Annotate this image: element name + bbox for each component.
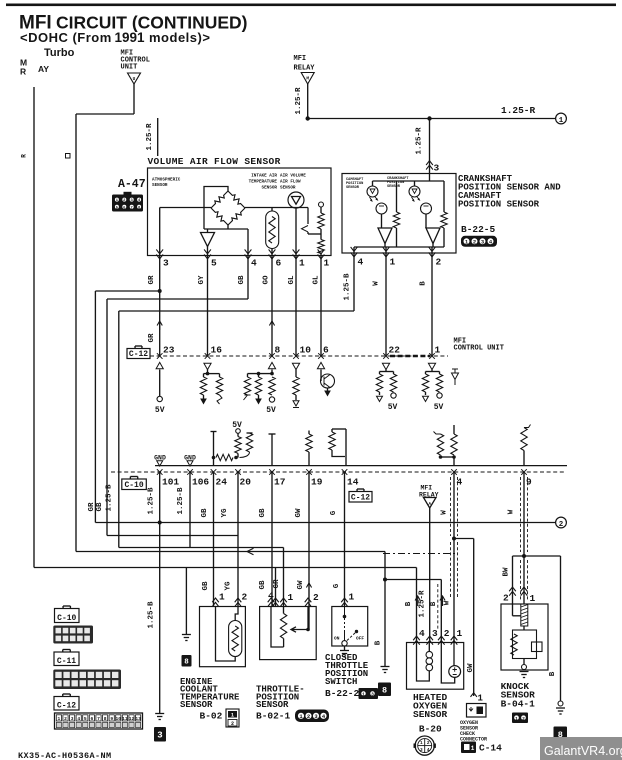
svg-text:GalantVR4.org: GalantVR4.org	[544, 744, 622, 758]
svg-text:1.25-R: 1.25-R	[295, 87, 303, 115]
svg-text:3: 3	[420, 748, 423, 753]
svg-text:G: G	[333, 583, 341, 588]
svg-text:1: 1	[288, 592, 294, 603]
svg-text:GW: GW	[297, 580, 305, 590]
svg-text:C-10: C-10	[57, 614, 76, 623]
svg-text:5: 5	[84, 716, 87, 722]
svg-text:1: 1	[58, 716, 61, 722]
svg-text:1: 1	[515, 716, 518, 722]
svg-text:GL: GL	[313, 275, 321, 285]
svg-text:AIR FLOW: AIR FLOW	[280, 180, 301, 185]
svg-text:2: 2	[427, 741, 430, 746]
svg-text:R: R	[20, 67, 26, 77]
svg-text:KX35-AC-H0536A-NM: KX35-AC-H0536A-NM	[18, 751, 112, 760]
svg-text:C-12: C-12	[129, 350, 148, 359]
svg-text:A-47: A-47	[118, 178, 146, 191]
svg-text:17: 17	[274, 477, 286, 488]
svg-text:GY: GY	[198, 275, 206, 285]
svg-text:5V: 5V	[266, 406, 276, 415]
svg-text:B-22-2: B-22-2	[325, 688, 360, 699]
svg-text:2: 2	[503, 593, 509, 604]
svg-text:14: 14	[347, 477, 359, 488]
svg-text:B-22-5: B-22-5	[461, 224, 496, 235]
svg-text:B-04-1: B-04-1	[501, 698, 536, 709]
svg-text:1.25-B: 1.25-B	[177, 487, 185, 515]
svg-text:TEMPERATURE: TEMPERATURE	[249, 180, 278, 185]
svg-text:10: 10	[116, 716, 122, 722]
svg-text:VOLUME AIR FLOW SENSOR: VOLUME AIR FLOW SENSOR	[148, 156, 281, 167]
svg-text:W: W	[444, 600, 452, 605]
svg-text:models)>: models)>	[149, 30, 210, 45]
svg-text:W: W	[508, 509, 516, 514]
svg-text:1.25-B: 1.25-B	[148, 487, 156, 515]
svg-text:GB: GB	[96, 502, 104, 512]
svg-text:GO: GO	[263, 275, 271, 285]
svg-text:C-10: C-10	[124, 481, 143, 490]
svg-text:UNIT: UNIT	[121, 64, 138, 72]
svg-text:5V: 5V	[155, 406, 165, 415]
svg-text:B: B	[405, 601, 413, 606]
svg-text:SENSOR: SENSOR	[256, 700, 289, 710]
svg-text:12: 12	[129, 716, 135, 722]
svg-text:GB: GB	[238, 275, 246, 285]
svg-text:3: 3	[163, 258, 169, 269]
svg-text:1: 1	[530, 593, 536, 604]
svg-text:R: R	[21, 154, 28, 158]
svg-text:INTAKE AIR: INTAKE AIR	[251, 174, 277, 179]
svg-text:GR: GR	[148, 275, 156, 285]
svg-text:C-11: C-11	[57, 657, 76, 666]
svg-text:101: 101	[162, 477, 179, 488]
svg-text:1: 1	[457, 628, 463, 639]
svg-text:1: 1	[299, 258, 305, 269]
svg-text:1: 1	[349, 592, 355, 603]
svg-text:6: 6	[276, 258, 282, 269]
svg-text:1: 1	[390, 257, 396, 268]
svg-text:YG: YG	[225, 581, 233, 591]
svg-text:4: 4	[268, 591, 274, 602]
svg-text:2: 2	[473, 239, 476, 246]
svg-text:5V: 5V	[434, 403, 444, 412]
svg-text:2: 2	[444, 628, 450, 639]
svg-text:U: U	[133, 76, 136, 82]
svg-text:AY: AY	[38, 64, 49, 74]
svg-text:B-20: B-20	[419, 724, 442, 735]
svg-text:24: 24	[216, 477, 228, 488]
svg-text:GR: GR	[88, 502, 96, 512]
svg-text:2: 2	[559, 521, 564, 529]
svg-text:6: 6	[91, 716, 94, 722]
svg-text:8: 8	[184, 658, 189, 666]
svg-text:M: M	[306, 76, 309, 82]
svg-text:<DOHC (From: <DOHC (From	[20, 30, 112, 45]
svg-text:1.25-B: 1.25-B	[344, 273, 352, 301]
svg-text:SENSOR: SENSOR	[280, 186, 296, 191]
svg-text:SENSOR: SENSOR	[262, 186, 278, 191]
svg-text:SENSOR: SENSOR	[180, 700, 213, 710]
svg-text:1: 1	[435, 345, 441, 356]
svg-text:GB: GB	[202, 581, 210, 591]
svg-text:8: 8	[275, 345, 281, 356]
svg-text:SENSOR: SENSOR	[152, 183, 168, 188]
svg-text:B: B	[420, 281, 428, 286]
svg-text:20: 20	[240, 477, 252, 488]
svg-text:B-02: B-02	[200, 711, 223, 722]
svg-text:1991: 1991	[115, 30, 146, 45]
svg-text:2: 2	[242, 592, 248, 603]
svg-text:1.25-R: 1.25-R	[418, 590, 426, 618]
svg-text:CONTROL UNIT: CONTROL UNIT	[454, 345, 504, 353]
svg-text:2: 2	[307, 713, 310, 720]
svg-text:GB: GB	[259, 508, 267, 518]
svg-text:5: 5	[211, 258, 217, 269]
svg-text:MFI: MFI	[294, 55, 307, 63]
svg-text:10: 10	[300, 345, 312, 356]
svg-text:BW: BW	[503, 567, 511, 577]
svg-text:23: 23	[163, 345, 175, 356]
svg-text:16: 16	[211, 345, 223, 356]
svg-text:13: 13	[135, 716, 141, 722]
svg-text:9: 9	[110, 716, 113, 722]
svg-text:5V: 5V	[232, 421, 242, 430]
svg-text:3: 3	[432, 628, 438, 639]
svg-text:SWITCH: SWITCH	[325, 677, 357, 687]
svg-text:3: 3	[71, 716, 74, 722]
svg-text:POSITION SENSOR: POSITION SENSOR	[458, 200, 540, 210]
svg-text:1.25-B: 1.25-B	[148, 601, 156, 629]
svg-text:OFF: OFF	[356, 636, 364, 642]
svg-text:G: G	[330, 510, 338, 515]
svg-text:1.25-B: 1.25-B	[106, 484, 114, 512]
svg-text:6: 6	[323, 345, 329, 356]
svg-text:GB: GB	[259, 580, 267, 590]
svg-text:1: 1	[471, 745, 475, 752]
svg-text:4: 4	[427, 748, 430, 753]
svg-text:8: 8	[382, 685, 387, 695]
svg-text:1: 1	[420, 741, 423, 746]
svg-text:1.25-R: 1.25-R	[416, 127, 424, 155]
svg-text:W: W	[373, 281, 381, 286]
svg-text:GB: GB	[201, 508, 209, 518]
svg-text:3: 3	[157, 730, 162, 740]
svg-text:1: 1	[559, 117, 564, 125]
svg-text:B-02-1: B-02-1	[256, 711, 291, 722]
svg-text:4: 4	[358, 257, 364, 268]
svg-text:C-12: C-12	[57, 702, 76, 711]
svg-text:B: B	[430, 601, 438, 606]
svg-text:RELAY: RELAY	[294, 65, 316, 73]
svg-text:19: 19	[311, 477, 323, 488]
svg-text:4: 4	[419, 628, 425, 639]
svg-text:GW: GW	[467, 663, 475, 673]
svg-text:5V: 5V	[388, 403, 398, 412]
svg-text:1: 1	[324, 258, 330, 269]
svg-text:2: 2	[313, 592, 319, 603]
svg-text:SENSOR: SENSOR	[387, 185, 401, 189]
svg-text:2: 2	[522, 716, 525, 722]
svg-text:9: 9	[526, 477, 532, 488]
svg-text:GL: GL	[288, 275, 296, 285]
svg-text:2: 2	[436, 257, 442, 268]
svg-text:C-12: C-12	[351, 494, 370, 503]
svg-text:AIR VOLUME: AIR VOLUME	[280, 174, 306, 179]
svg-text:1.25-R: 1.25-R	[501, 105, 536, 116]
svg-text:106: 106	[192, 477, 209, 488]
svg-text:3: 3	[434, 163, 440, 174]
svg-text:B: B	[549, 671, 557, 676]
svg-text:22: 22	[389, 345, 401, 356]
svg-text:3: 3	[371, 692, 374, 698]
svg-text:Turbo: Turbo	[44, 47, 75, 59]
svg-text:1: 1	[231, 713, 234, 719]
svg-text:11: 11	[122, 716, 128, 722]
svg-text:4: 4	[251, 258, 257, 269]
svg-text:SENSOR: SENSOR	[413, 709, 448, 720]
svg-text:8: 8	[104, 716, 107, 722]
svg-text:2: 2	[64, 716, 67, 722]
svg-text:1.25-R: 1.25-R	[146, 123, 154, 151]
svg-text:GW: GW	[295, 508, 303, 518]
svg-text:4: 4	[77, 716, 80, 722]
svg-text:GR: GR	[148, 333, 156, 343]
svg-text:ON: ON	[334, 636, 340, 642]
svg-text:C-14: C-14	[479, 743, 502, 754]
svg-text:ATMOSPHERIC: ATMOSPHERIC	[152, 178, 181, 183]
svg-text:2: 2	[231, 721, 234, 727]
svg-text:YG: YG	[221, 508, 229, 518]
svg-text:GR: GR	[273, 579, 281, 589]
svg-text:1: 1	[478, 694, 484, 704]
svg-text:1: 1	[219, 592, 225, 603]
svg-text:W: W	[441, 510, 449, 515]
svg-text:SENSOR: SENSOR	[346, 186, 360, 190]
svg-text:B: B	[375, 640, 383, 645]
svg-text:1: 1	[362, 692, 365, 698]
svg-text:7: 7	[97, 716, 100, 722]
